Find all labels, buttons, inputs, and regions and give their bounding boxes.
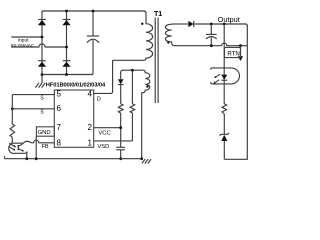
node dot output cap xyxy=(210,23,213,26)
svg-text:T1: T1 xyxy=(154,11,162,18)
phase dot primary xyxy=(141,23,143,25)
wire aux top line xyxy=(121,70,144,72)
svg-text:S: S xyxy=(40,110,44,116)
svg-text:2: 2 xyxy=(88,123,93,132)
phase dot aux xyxy=(146,85,148,87)
capacitor C3 VSD xyxy=(116,141,125,159)
light arrow 1 into opto xyxy=(9,143,16,147)
node dot aux rail xyxy=(140,157,143,160)
transistor Q1 opto base bar xyxy=(17,145,19,150)
svg-text:8: 8 xyxy=(57,139,62,148)
node dot bridge rail left xyxy=(41,73,44,76)
svg-text:VSD: VSD xyxy=(97,144,109,150)
wire bottom bridge rail xyxy=(42,74,93,76)
wire R1 lower lead xyxy=(120,113,122,141)
node dot input top xyxy=(41,36,44,39)
optocoupler U2 phototransistor outline xyxy=(9,143,27,153)
wire pin4 drain xyxy=(94,60,113,93)
wire right output rail xyxy=(224,25,247,159)
resistor R1 xyxy=(118,104,123,113)
svg-text:1: 1 xyxy=(88,139,93,148)
wire left spine xyxy=(11,95,13,124)
diode D2 bridge upper-right xyxy=(62,20,70,26)
wire left bridge branch xyxy=(41,11,43,83)
node dot return cap xyxy=(210,44,213,47)
resistor R2 xyxy=(130,104,135,113)
zener diode D7 xyxy=(220,133,229,159)
node dot bridge rail right xyxy=(65,73,68,76)
wire pin6 S xyxy=(12,108,54,110)
svg-text:6: 6 xyxy=(57,104,62,113)
node dot C3 ground xyxy=(119,157,122,160)
svg-text:Output: Output xyxy=(218,15,240,24)
diode D5 aux rectifier xyxy=(118,72,124,104)
resistor R4 feedback xyxy=(222,104,227,114)
wire secondary return line with hop xyxy=(174,43,247,46)
diode D4 bridge lower-right xyxy=(62,61,70,67)
node dot output LED branch xyxy=(223,23,226,26)
wire top rail xyxy=(42,11,146,13)
node dot pin6 spine xyxy=(11,107,14,110)
node dot emitter rail xyxy=(25,157,28,160)
transistor Q1 emitter segment with arrow xyxy=(19,149,25,152)
svg-text:GND: GND xyxy=(38,130,51,136)
transformer core xyxy=(155,18,158,104)
wire bottom ground rail xyxy=(5,156,142,158)
RTN arrow xyxy=(238,46,243,61)
wire opto emitter to rail xyxy=(26,152,28,159)
LED symbol in opto xyxy=(221,75,227,104)
svg-text:HF01B00/0/01/02/03/04: HF01B00/0/01/02/03/04 xyxy=(46,83,106,89)
wire R2 lower lead xyxy=(131,113,133,141)
node dot top rail cap xyxy=(92,10,95,13)
transformer T1 secondary winding xyxy=(165,24,174,46)
wire pin2 VCC xyxy=(94,127,121,129)
wire right bridge branch xyxy=(66,11,68,75)
svg-text:5: 5 xyxy=(57,90,62,99)
label box GND pin7 xyxy=(36,127,54,136)
svg-text:S: S xyxy=(40,96,44,102)
wire input line top xyxy=(11,36,42,38)
wire R3 lower lead xyxy=(11,137,13,143)
wire GND stub xyxy=(35,136,37,159)
resistor R3 xyxy=(10,124,15,137)
node dot return RTN arrow xyxy=(239,44,242,47)
IC U1 package outline xyxy=(54,90,93,147)
svg-text:VCC: VCC xyxy=(98,131,110,137)
wire FB to opto collector with hop xyxy=(23,140,54,143)
node dot VCC R1 xyxy=(119,126,122,129)
svg-text:7: 7 xyxy=(57,123,62,132)
wire LED branch upper xyxy=(223,24,225,75)
svg-text:4: 4 xyxy=(88,90,93,99)
wire pin1 VSD xyxy=(94,140,133,142)
svg-text:D: D xyxy=(97,96,101,102)
wire R2 upper lead xyxy=(131,70,133,104)
ground primary (chassis hatch) xyxy=(35,83,45,88)
phase dot secondary xyxy=(167,41,169,43)
node dot input bottom xyxy=(65,46,68,49)
wire secondary output line xyxy=(174,23,189,25)
svg-text:85-265VAC: 85-265VAC xyxy=(11,43,35,48)
transformer T1 primary winding xyxy=(113,12,153,60)
transformer T1 aux winding xyxy=(142,70,150,159)
light arrow 1 from LED xyxy=(214,74,220,78)
svg-text:RTN: RTN xyxy=(227,50,239,57)
diode D1 bridge upper-left xyxy=(38,20,46,26)
light arrow 2 from LED xyxy=(213,80,219,84)
wire pin5 S xyxy=(12,94,54,96)
diode D3 bridge lower-left xyxy=(38,61,46,67)
ground symbol rail end xyxy=(142,159,151,163)
light arrow 2 into opto xyxy=(9,147,16,151)
label box RTN xyxy=(224,47,240,57)
node dot top rail right branch xyxy=(65,10,68,13)
svg-text:FB: FB xyxy=(42,144,49,150)
transistor Q1 collector segment xyxy=(19,143,24,146)
capacitor C1 bulk xyxy=(87,11,99,75)
capacitor C2 output xyxy=(206,24,217,46)
diode D6 output rectifier xyxy=(188,21,247,27)
wire R4 to zener xyxy=(223,114,225,134)
node dot R2 top xyxy=(131,69,134,72)
wire input line bottom with hop xyxy=(11,44,66,47)
optocoupler U2 LED outline xyxy=(211,68,240,84)
node dot gnd stub rail xyxy=(35,157,38,160)
